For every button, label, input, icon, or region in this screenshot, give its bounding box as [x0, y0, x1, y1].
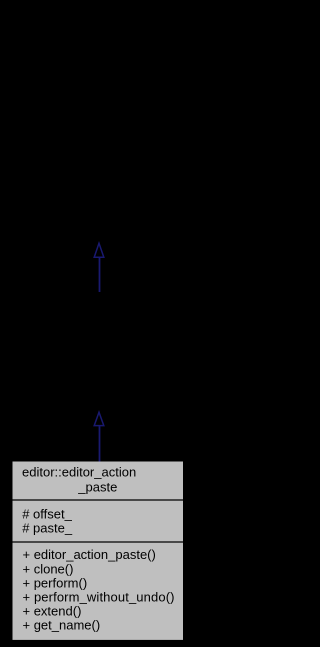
inheritance arrow (upper): hollow triangle head [94, 243, 104, 257]
svg-text:+ extend(): + extend() [23, 604, 82, 619]
svg-text:# offset_: # offset_ [22, 506, 72, 521]
svg-text:+ editor_action_paste(): + editor_action_paste() [23, 547, 156, 562]
separator 1 [12, 499, 184, 501]
svg-text:+ perform(): + perform() [23, 575, 88, 590]
class node editor::editor_action_paste [12, 462, 184, 640]
separator 2 [12, 541, 184, 543]
svg-text:+ perform_without_undo(): + perform_without_undo() [23, 590, 175, 605]
svg-text:# paste_: # paste_ [22, 520, 73, 535]
svg-text:editor::editor_action: editor::editor_action [22, 465, 136, 480]
wire: upper edge shaft [99, 258, 101, 292]
inheritance arrow (lower): hollow triangle head [94, 412, 104, 425]
svg-text:+ clone(): + clone() [23, 561, 74, 576]
svg-text:_paste: _paste [77, 479, 117, 494]
wire: lower edge shaft [99, 426, 101, 461]
svg-text:+ get_name(): + get_name() [23, 618, 101, 633]
